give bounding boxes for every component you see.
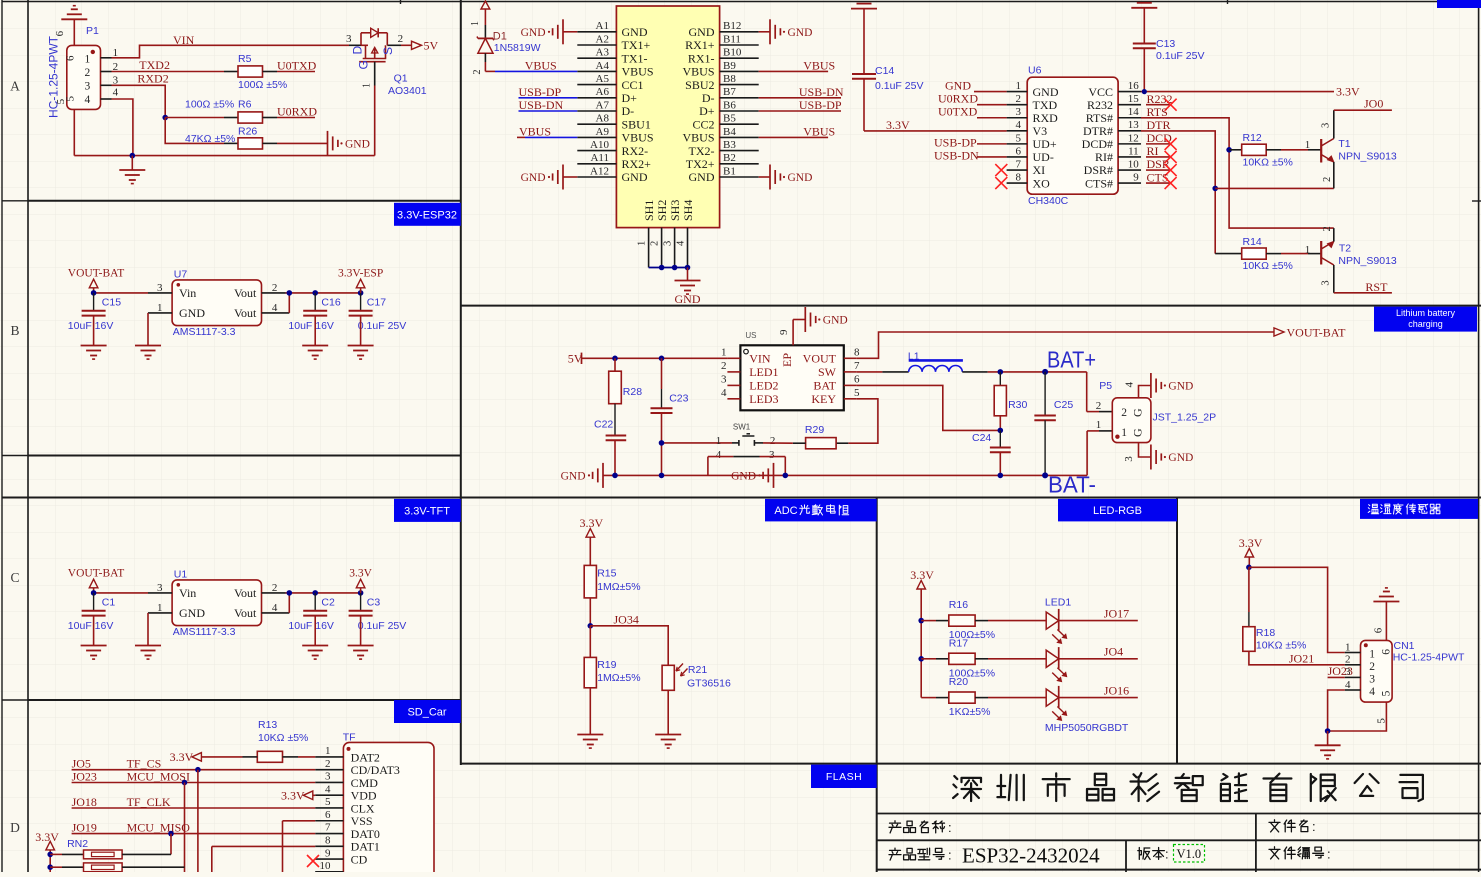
svg-text:JO16: JO16 [1104,684,1129,698]
junction at input cap [91,590,97,596]
wire U0TXD stub after R5 [263,71,278,73]
no-connect X on U6 pin XI [995,164,1007,176]
wire KEY from US pin5 to R29 [848,399,878,443]
connector CN1 HC-1.25-4PWT [1361,640,1393,702]
svg-text:SW: SW [818,365,837,379]
svg-text:CC2: CC2 [692,117,714,131]
USB pin A3 TX1- [577,57,616,59]
junction on bottom rail [130,153,136,159]
svg-text:10uF 16V: 10uF 16V [68,620,114,632]
svg-text:2: 2 [1369,661,1375,673]
svg-text:VIN: VIN [173,33,195,47]
LED element 2 of LED1 [1046,650,1059,667]
svg-text:3: 3 [769,449,775,461]
svg-text:RX2+: RX2+ [622,157,652,171]
svg-text:6: 6 [1016,145,1022,157]
junction rail C23 [659,473,665,479]
svg-text:VBUS: VBUS [803,124,835,138]
svg-text:B6: B6 [723,99,736,111]
wire JO4 from LED [1059,658,1138,660]
svg-text:B2: B2 [723,152,736,164]
wire VBUS at pin B9 [759,70,828,72]
svg-text:SD_Car: SD_Car [407,707,446,719]
svg-text::: : [948,848,952,863]
svg-text:3.3V: 3.3V [35,830,59,844]
IC US charging chip body [740,345,843,410]
wire RTS from U6 pin14 to T2 collector [1141,118,1334,228]
svg-text:6: 6 [54,30,66,36]
USB pin B6 D+ [720,110,759,112]
svg-text:JO21: JO21 [1289,651,1314,665]
svg-text:G: G [1131,408,1145,417]
wire DTR from U6 pin13 to R14 [1141,131,1215,254]
svg-text:6: 6 [325,809,331,821]
wire VSS down [282,821,284,872]
junction sensor ground [1325,728,1331,734]
wire VCC 3.3V from U6 pin16 [1141,91,1334,93]
svg-text:1: 1 [1121,427,1127,439]
U7 pin4 lead jog [262,312,290,314]
wire DAT1 down [211,846,213,872]
USB pin B4 VBUS [720,136,759,138]
earth ground above CN1 pin6 [1373,601,1399,603]
svg-text:MCU_MOSI: MCU_MOSI [127,769,190,783]
svg-text:RXD2: RXD2 [137,71,168,85]
svg-text:5: 5 [55,98,67,104]
svg-text:2: 2 [1322,177,1333,182]
US pin 6 BAT [844,384,857,386]
svg-text:1: 1 [157,302,163,314]
capacitor C23 [661,358,663,389]
connector TF card body [343,742,434,877]
svg-text:VOUT-BAT: VOUT-BAT [1287,326,1347,340]
svg-text:JO4: JO4 [1104,645,1123,659]
svg-text:3.3V-ESP: 3.3V-ESP [338,267,383,279]
wire shield to ground [687,268,689,281]
wire JO23 stub to CN1 pin3 [1328,676,1345,678]
CN1 pin 3 lead [1345,676,1361,678]
wire VSS from TF pin6 [283,820,316,822]
U6 pin 8 XO [1007,182,1028,184]
earth ground below CN1 [1327,731,1329,745]
svg-text:USB-DN: USB-DN [519,98,564,112]
svg-text:3.3V: 3.3V [886,118,910,132]
svg-text:SBU1: SBU1 [622,117,651,131]
capacitor C22 [606,435,627,437]
cropped blue section bar top right [1437,0,1481,8]
svg-text:JO34: JO34 [614,612,639,626]
wire TF_CLK to TF pin5 [72,807,316,809]
svg-text:5: 5 [854,387,860,399]
USB pin A7 D- [577,110,616,112]
svg-text:2: 2 [1096,400,1102,412]
svg-text:R20: R20 [949,676,968,688]
US pin 2 LED1 [727,371,740,373]
wire TF_CS down [197,770,199,872]
capacitor C3 [360,593,362,611]
svg-text:MCU_MISO: MCU_MISO [127,820,191,834]
svg-text:SH1: SH1 [642,200,656,221]
svg-text:LED2: LED2 [749,379,778,393]
wire MCU_MISO to TF pin7 [72,833,316,835]
junction 5V to C23 [659,356,665,362]
svg-text:TXD: TXD [1033,98,1058,112]
svg-text:TF: TF [343,732,356,744]
svg-text:5: 5 [1016,132,1022,144]
svg-text:100Ω ±5%: 100Ω ±5% [185,99,234,111]
svg-text:A12: A12 [590,165,609,177]
svg-text:1MΩ±5%: 1MΩ±5% [597,581,640,593]
svg-text:DTR: DTR [1147,118,1171,132]
svg-text:DTR#: DTR# [1083,124,1113,138]
svg-text:1: 1 [637,241,648,246]
USB pin B9 VBUS [720,70,759,72]
svg-text:TXD2: TXD2 [139,58,170,72]
earth ground below C15 [81,345,107,347]
wire RST from T2 [1334,292,1392,294]
svg-text:DCD#: DCD# [1082,137,1113,151]
earth ground above P1 [73,19,75,45]
section label 3.3V-TFT [394,499,461,522]
svg-text:LED1: LED1 [749,365,778,379]
resistor R30 vertical [999,372,1001,386]
wire JO21 from R18 to CN1 pin2 [1249,651,1345,665]
USB pin A10 RX2- [577,150,616,152]
svg-text:DCD: DCD [1147,131,1173,145]
svg-text:4: 4 [1124,382,1136,388]
svg-text:VBUS: VBUS [803,59,835,73]
shield common wire [649,267,688,269]
svg-text:3: 3 [1369,673,1375,685]
ground port at P5 pin4 [1150,373,1152,398]
output rail wire [286,292,361,294]
svg-text:C16: C16 [321,297,340,309]
svg-text:A4: A4 [596,60,610,72]
svg-text:GND: GND [1168,452,1193,464]
wire JO17 from LED [1059,620,1138,622]
svg-text:DSR#: DSR# [1084,163,1113,177]
svg-text:GT36516: GT36516 [687,677,731,689]
wire 3.3V from C14 to U6 pin4 [864,130,1007,132]
svg-text:TX2+: TX2+ [686,157,715,171]
svg-text:D-: D- [622,104,635,118]
U6 pin 2 TXD [1007,104,1028,106]
earth ground at U1 GND [135,645,161,647]
svg-text:charging: charging [1408,319,1443,329]
svg-text:JO23: JO23 [72,769,97,783]
U6 pin 7 XI [1007,169,1028,171]
svg-text:2: 2 [770,435,776,447]
USB pin A11 RX2+ [577,163,616,165]
no-connect stub CTS at U6 [1146,182,1171,184]
svg-text:LED1: LED1 [1045,597,1071,609]
svg-text:R17: R17 [949,637,968,649]
svg-text:B9: B9 [723,60,736,72]
wire BAT+ to P5 pin2 [1086,372,1088,412]
svg-text:B12: B12 [723,20,741,32]
svg-text:Vin: Vin [179,586,196,600]
svg-text:VBUS: VBUS [682,131,714,145]
svg-text:VBUS: VBUS [622,65,654,79]
wire USB-DP stub at U6 pin5 [977,143,1007,145]
svg-text:3: 3 [1345,666,1351,678]
svg-text:R12: R12 [1243,132,1262,144]
U6 pin 13 DTR# [1118,130,1141,132]
svg-text:RN2: RN2 [67,838,88,850]
svg-text:2: 2 [1121,407,1127,419]
svg-text:10KΩ ±5%: 10KΩ ±5% [1243,260,1293,272]
US pin 1 VIN [727,357,740,359]
svg-text:A10: A10 [590,139,609,151]
no-connect stub DCD at U6 [1146,143,1171,145]
svg-text:V1.0: V1.0 [1177,847,1202,861]
svg-text:SH4: SH4 [681,200,695,221]
svg-text:3: 3 [1321,280,1332,285]
svg-text:B1: B1 [723,165,736,177]
US pin 4 LED3 [727,398,740,400]
resistor R18 vertical [1248,567,1250,612]
wire VOUT-BAT to U7 Vin [94,292,148,294]
svg-text:4: 4 [1345,679,1351,691]
U6 pin 10 DSR# [1118,169,1141,171]
svg-text:VOUT-BAT: VOUT-BAT [68,267,124,279]
svg-text:1: 1 [1096,419,1102,431]
svg-text:2: 2 [721,360,727,372]
U6 pin 4 V3 [1007,130,1028,132]
TF pin 2 CD/DAT3 [315,769,343,771]
resistor R17 [921,658,936,660]
ground port left on rail [602,463,604,488]
wire BAT- to P5 pin1 [1086,431,1088,476]
svg-text:LED3: LED3 [749,392,778,406]
resistor R14 [1215,253,1242,255]
svg-text:C23: C23 [669,393,688,405]
ground port at P5 pin3 [1150,445,1152,470]
svg-text:RST: RST [1365,280,1388,294]
svg-text:3: 3 [663,241,674,246]
svg-text:ADC: ADC [774,505,797,517]
svg-text:B5: B5 [723,113,736,125]
svg-text:VBUS: VBUS [525,59,557,73]
svg-text:6: 6 [65,55,77,61]
no-connect X on U6 pin XO [995,177,1007,189]
U6 pin 14 RTS# [1118,117,1141,119]
power flag 5V above D1 [481,1,490,9]
svg-text:B11: B11 [723,33,741,45]
svg-text:3: 3 [1123,456,1135,462]
wire BAT from US pin6 [857,385,1001,430]
svg-text:USB-DP: USB-DP [799,98,842,112]
resistor network RN2 element 2 [50,866,62,868]
TF pin 6 VSS [315,820,343,822]
svg-text:GND: GND [689,25,715,39]
svg-text:VOUT: VOUT [803,352,837,366]
svg-text:3: 3 [325,771,331,783]
CN1 pin5 wire to ground rail [1328,702,1387,731]
field label: product name [889,821,901,833]
P5 pin3 wire to ground [1139,443,1151,457]
svg-text:3: 3 [157,282,163,294]
svg-text:3: 3 [346,33,352,45]
svg-text:2: 2 [472,70,483,75]
U6 pin 11 RI# [1118,156,1141,158]
earth ground below bottom rail [131,156,133,170]
CN1 pin 1 lead [1345,652,1361,654]
wire USB-DP at pin B6 [759,110,841,112]
wire JO16 from LED [1059,697,1138,699]
svg-text:1MΩ±5%: 1MΩ±5% [597,672,640,684]
svg-text:3: 3 [157,582,163,594]
svg-text:GND: GND [689,170,715,184]
svg-text:1: 1 [1305,244,1311,256]
svg-text:1N5819W: 1N5819W [494,42,541,54]
svg-text::: : [1165,847,1169,862]
junction L1 R30 [998,369,1004,375]
svg-text:G: G [1131,428,1145,437]
svg-text:3: 3 [1321,123,1332,128]
USB pin B11 RX1+ [720,44,759,46]
svg-text:Vout: Vout [234,286,257,300]
junction rail C22 [612,473,618,479]
svg-text:U1: U1 [174,568,188,580]
wire U0RXD stub at U6 pin2 [977,104,1007,106]
svg-text:R5: R5 [238,53,252,65]
svg-text:6: 6 [1373,627,1385,633]
svg-text:XI: XI [1033,163,1046,177]
svg-text:1: 1 [721,346,727,358]
svg-text:3: 3 [721,373,727,385]
svg-text:C17: C17 [367,297,386,309]
section label SD_Car [394,700,461,723]
svg-text:2: 2 [1345,654,1351,666]
svg-text:9: 9 [778,329,790,335]
svg-text:9: 9 [1133,171,1139,183]
svg-text:GND: GND [823,315,848,327]
svg-text:1: 1 [1345,641,1351,653]
wire VBUS at pin B4 [759,136,828,138]
svg-text:D+: D+ [699,104,715,118]
U6 pin 15 R232 [1118,104,1141,106]
wire 3.3V feed to resistors [920,589,922,698]
svg-text:C24: C24 [972,432,991,444]
svg-text:TX1-: TX1- [622,51,648,65]
svg-text:4: 4 [85,94,91,106]
US pin 9 EP [792,320,794,346]
svg-text:3.3V: 3.3V [1336,85,1360,99]
svg-text:2: 2 [272,282,278,294]
junction RTS to R12 [1226,147,1232,153]
svg-text:3.3V: 3.3V [281,789,305,803]
capacitor C17 [360,293,362,311]
svg-text:10uF 16V: 10uF 16V [288,320,334,332]
svg-text:UD+: UD+ [1033,137,1057,151]
svg-text:GND: GND [345,138,370,150]
svg-text:GND: GND [521,27,546,39]
svg-text:CTS#: CTS# [1085,176,1113,190]
wire USB-DN at pin B7 [759,97,841,99]
earth ground below C16 [302,345,328,347]
output rail wire [286,592,361,594]
svg-text:Vin: Vin [179,286,196,300]
svg-text:1: 1 [1305,139,1311,151]
svg-text:3.3V-TFT: 3.3V-TFT [404,505,450,517]
svg-text:5: 5 [1380,690,1392,696]
svg-text:A: A [10,79,20,94]
U6 pin 9 CTS# [1118,182,1141,184]
svg-text:2: 2 [1016,93,1022,105]
U1 pin3 lead [148,592,172,594]
US pin 5 KEY [844,398,857,400]
svg-text:R14: R14 [1243,236,1262,248]
power port VOUT-BAT arrow [1274,328,1284,336]
pin 4 of P1 [101,98,112,100]
junction SW1 wire to C23 node [659,440,665,446]
svg-text:JST_1.25_2P: JST_1.25_2P [1153,412,1217,424]
U6 pin 3 RXD [1007,117,1028,119]
svg-text:R232: R232 [1087,98,1113,112]
svg-text:D1: D1 [493,31,507,43]
svg-text:C13: C13 [1156,38,1175,50]
junction 5V to R28 [612,356,618,362]
svg-text:8: 8 [325,834,331,846]
title block [877,813,1481,815]
section label ADC photoresistor [765,499,877,522]
svg-text:GND: GND [731,470,756,482]
wire from P1 pin4 down to bottom rail [112,99,133,156]
svg-text:R19: R19 [597,659,616,671]
push button SW1 [662,442,733,444]
svg-text:XO: XO [1033,176,1051,190]
wire USB-DP to pin A6 [519,97,578,99]
svg-text:2: 2 [272,582,278,594]
svg-text:D+: D+ [622,91,638,105]
svg-text:1: 1 [157,602,163,614]
svg-text:A6: A6 [596,86,610,98]
svg-text:GND: GND [179,306,205,320]
US pin 8 VOUT [844,357,857,359]
wire TXD2 from P1 pin2 to R5 [112,71,225,73]
junction at input cap [91,290,97,296]
svg-text:7: 7 [854,360,860,372]
wire 3.3V to R13 to TF pin1 [201,756,242,758]
earth ground below C3 [348,645,374,647]
svg-text:11: 11 [1128,145,1139,157]
svg-text:10uF 16V: 10uF 16V [68,320,114,332]
TF pin 8 DAT1 [315,845,343,847]
wire VBUS to pin A9 [517,136,525,138]
USB pin A6 D+ [577,97,616,99]
svg-text:4: 4 [721,387,727,399]
svg-text:10KΩ ±5%: 10KΩ ±5% [1256,640,1306,652]
svg-text:3.3V: 3.3V [1239,536,1263,550]
svg-text:1: 1 [1369,649,1375,661]
capacitor C16 [314,293,316,311]
svg-text:10KΩ ±5%: 10KΩ ±5% [1243,157,1293,169]
no-connect stub DSR at U6 [1146,169,1171,171]
svg-text:JO0: JO0 [1364,97,1383,111]
svg-text:U0TXD: U0TXD [938,105,978,119]
svg-text:1KΩ±5%: 1KΩ±5% [949,706,991,718]
svg-text:0.1uF 25V: 0.1uF 25V [875,80,923,92]
transistor Q1 AO3401 p-mosfet [349,44,361,46]
junction DTR node [1212,186,1218,192]
svg-text:7: 7 [325,822,331,834]
field label: version [1138,848,1150,860]
USB pin B8 SBU2 [720,84,759,86]
svg-text:R30: R30 [1008,399,1027,411]
USB pin A2 TX1+ [577,44,616,46]
svg-text:GND: GND [1033,85,1059,99]
